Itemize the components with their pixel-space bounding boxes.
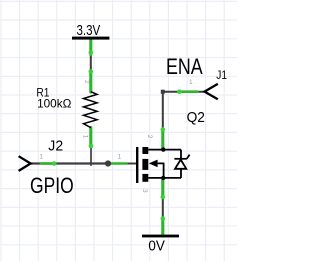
svg-text:J1: J1 [216, 69, 227, 82]
svg-text:1: 1 [189, 79, 193, 86]
svg-text:3: 3 [141, 189, 148, 193]
svg-text:1: 1 [82, 135, 89, 139]
svg-text:1: 1 [39, 154, 43, 161]
svg-text:1: 1 [118, 154, 122, 161]
svg-text:2: 2 [146, 135, 153, 139]
svg-text:2: 2 [83, 80, 90, 84]
svg-text:ENA: ENA [166, 55, 203, 79]
svg-text:100kΩ: 100kΩ [37, 96, 71, 110]
svg-text:Q2: Q2 [187, 109, 205, 125]
svg-text:0V: 0V [148, 237, 165, 254]
svg-text:J2: J2 [48, 138, 63, 154]
svg-text:3.3V: 3.3V [77, 22, 101, 39]
svg-text:GPIO: GPIO [30, 174, 74, 199]
